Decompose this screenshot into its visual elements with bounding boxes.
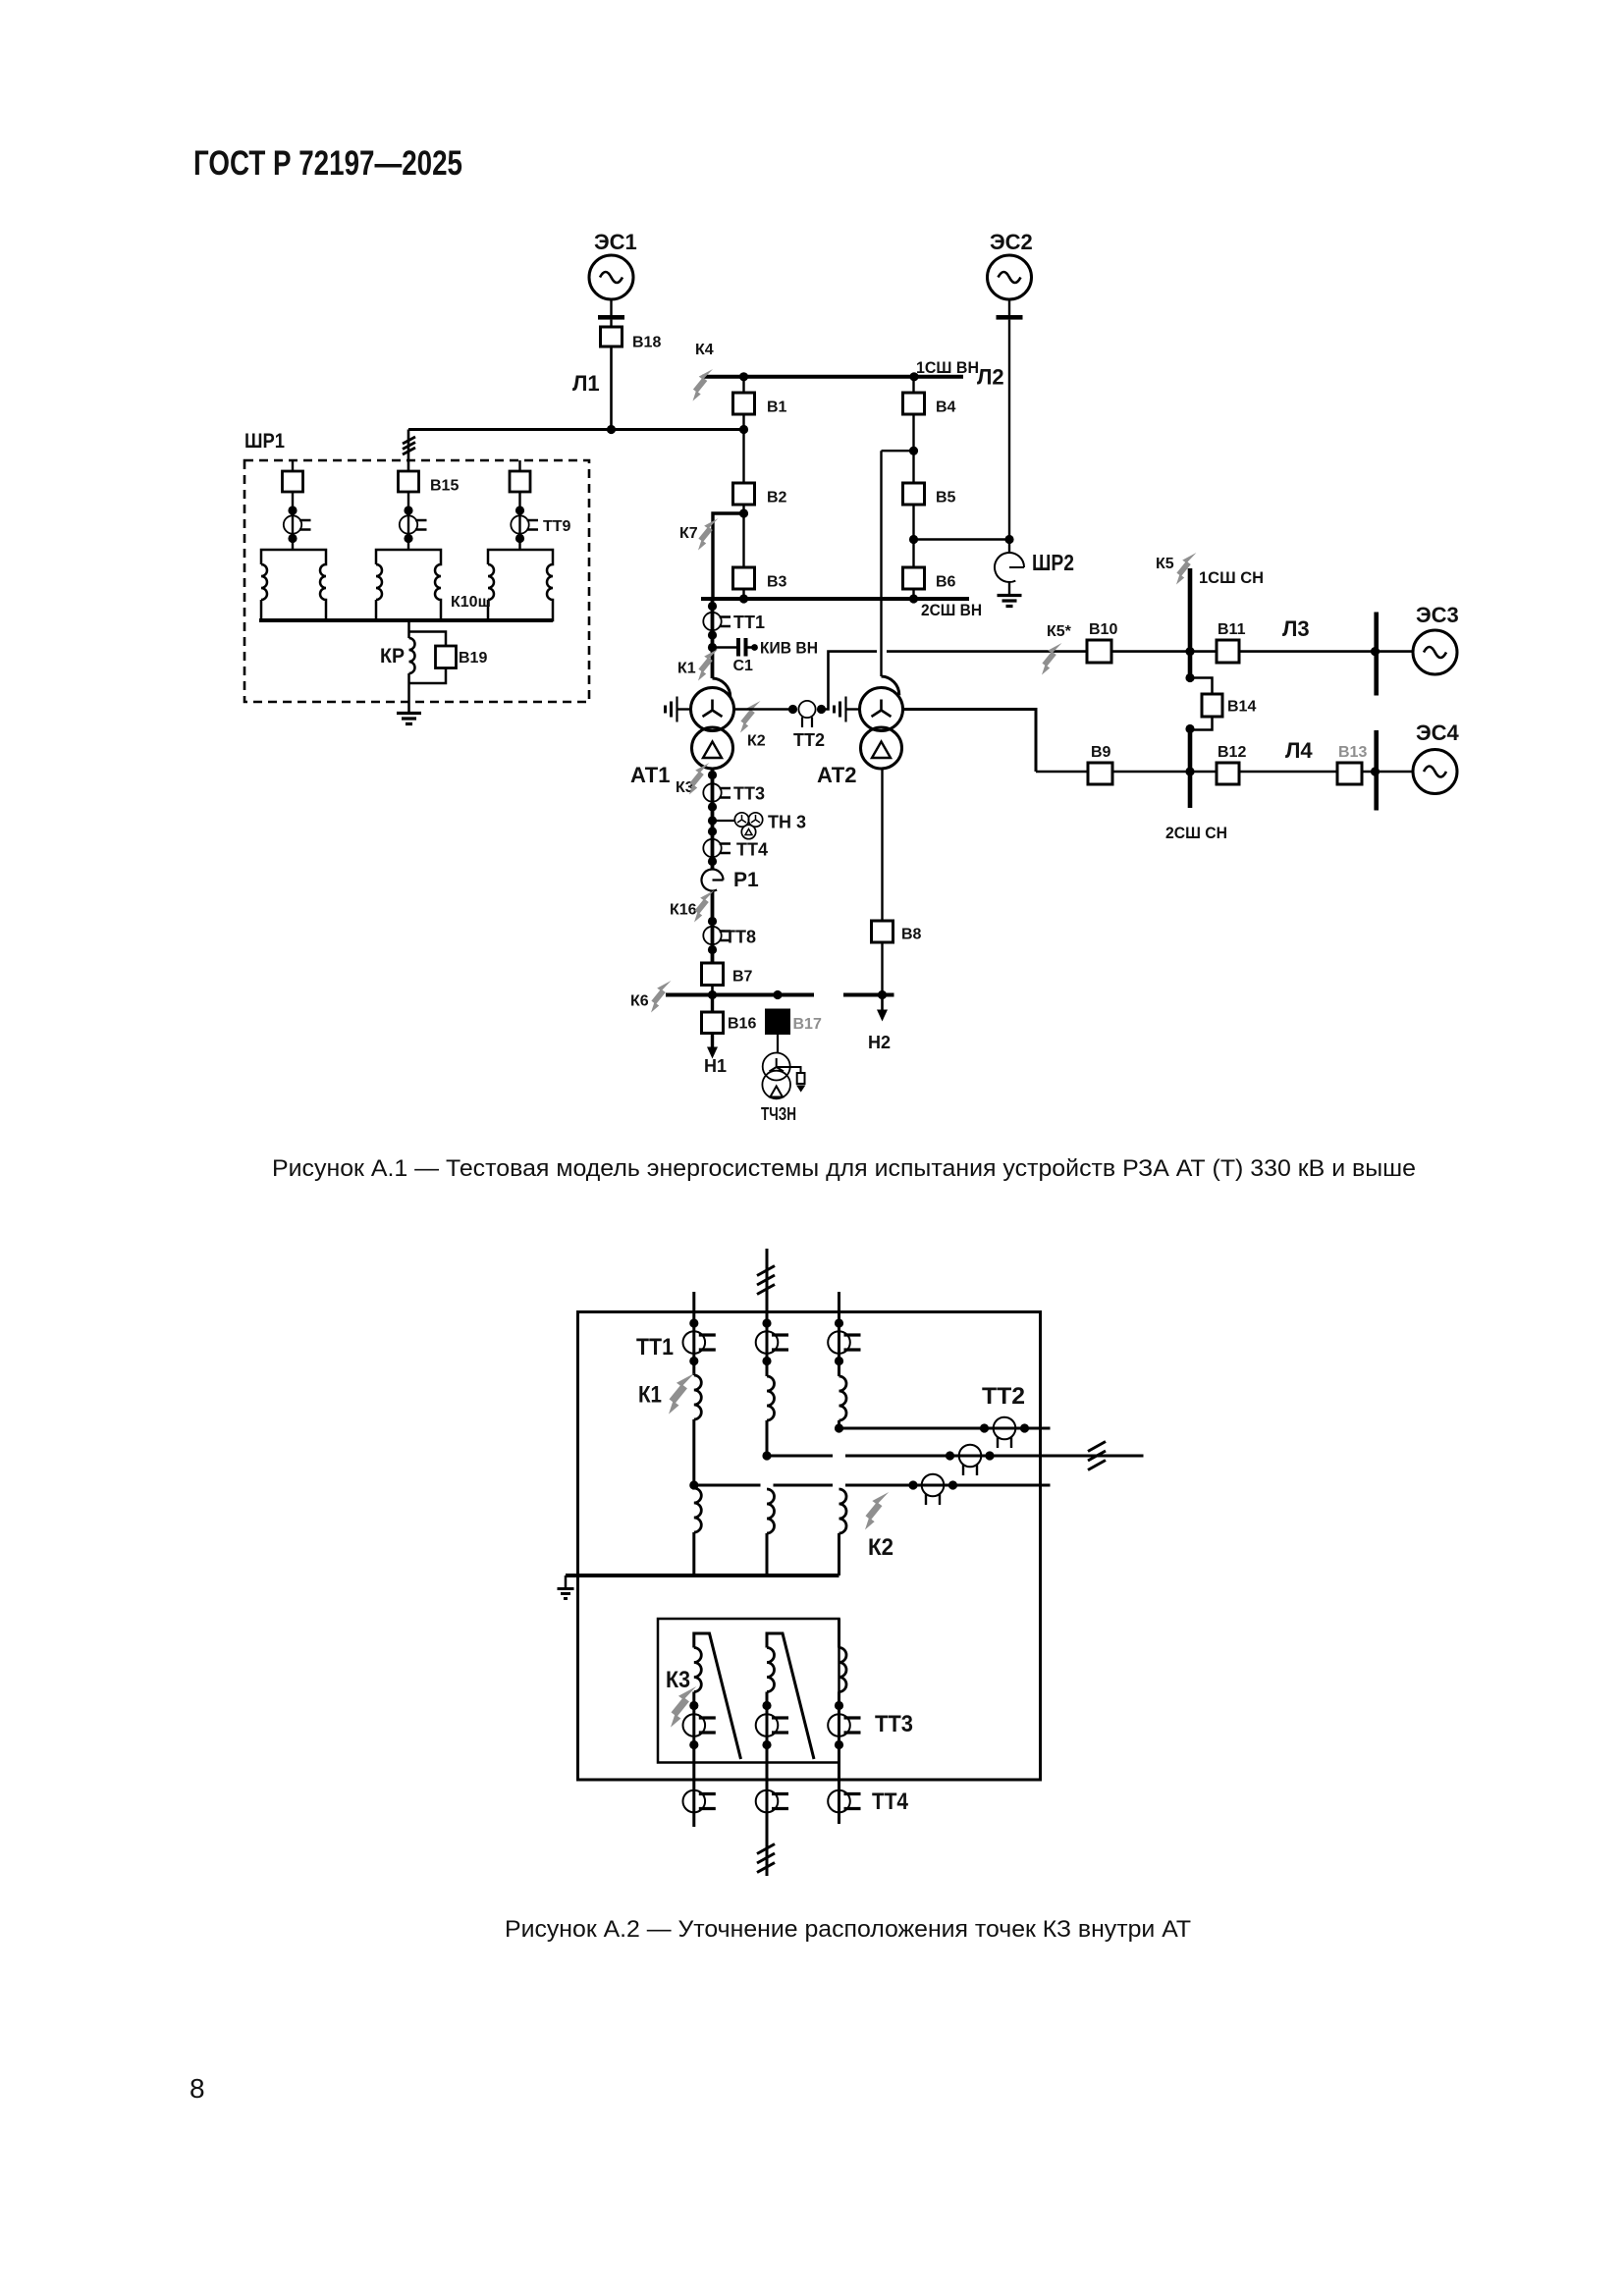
node Л3 / 1СШ СН	[1185, 647, 1194, 656]
node A above ТТ1	[689, 1318, 698, 1327]
wire phase A to tap	[692, 1419, 695, 1485]
svg-text:ШР1: ШР1	[244, 430, 285, 453]
node К6/В16	[708, 990, 717, 999]
wire phase B to star bus	[766, 1533, 769, 1575]
CT ТТ1	[703, 613, 731, 630]
wire В8 to Н2 bus	[881, 942, 883, 995]
neutral ground АТ2	[846, 708, 860, 710]
wire АТ2 to В8	[881, 769, 883, 921]
CT ТТ4 phase B	[756, 1790, 788, 1813]
svg-text:К5: К5	[1156, 556, 1174, 572]
node left of ТТ2 C	[980, 1423, 989, 1432]
star winding mark АТ1	[703, 700, 723, 718]
fault bolt К5	[1176, 553, 1197, 585]
tap wire B	[767, 1455, 1144, 1458]
svg-text:2СШ СН: 2СШ СН	[1165, 824, 1227, 842]
svg-text:2СШ ВН: 2СШ ВН	[921, 601, 982, 619]
svg-text:К2: К2	[868, 1534, 893, 1561]
svg-text:ТТ1: ТТ1	[733, 613, 765, 632]
breaker В14	[1202, 694, 1222, 717]
node bottom 1СШ СН	[1185, 673, 1194, 682]
node Л1/В1 column	[739, 425, 748, 434]
wire АТ1 MV output	[734, 708, 793, 711]
node below В4	[909, 447, 918, 455]
star winding mark АТ2	[872, 700, 892, 718]
wire Л1 down to ШР1	[407, 430, 410, 472]
svg-text:К1: К1	[638, 1382, 662, 1409]
three-phase slashes MV	[1088, 1442, 1106, 1470]
wire ЭС2 to bar	[1008, 299, 1010, 315]
fault bolt К3	[689, 763, 710, 795]
node C above ТТ3	[835, 1701, 843, 1710]
wire Л4	[1036, 771, 1377, 774]
node 1СШ ВН / В4	[909, 372, 918, 381]
neutral bus	[566, 1574, 839, 1577]
svg-text:Н1: Н1	[704, 1056, 727, 1076]
ground arrow ТЧЗН	[796, 1086, 805, 1093]
node tap B	[762, 1451, 771, 1460]
node below ТТ8	[708, 945, 717, 954]
delta connector phase B	[767, 1633, 814, 1759]
wire bar to ЭС3	[1377, 650, 1413, 653]
capacitor С1	[738, 638, 746, 657]
svg-text:ТТ2: ТТ2	[793, 730, 825, 750]
svg-text:В2: В2	[767, 490, 787, 507]
series winding phase A	[694, 1375, 702, 1419]
svg-text:Рисунок А.1 — Тестовая модель: Рисунок А.1 — Тестовая модель энергосист…	[272, 1155, 1416, 1182]
wire АТ1 column lower	[711, 769, 715, 870]
breaker В11	[1217, 640, 1239, 663]
wire to С1	[713, 646, 737, 649]
svg-text:ТТ3: ТТ3	[875, 1711, 913, 1737]
node below right breaker	[515, 506, 524, 514]
svg-text:В3: В3	[767, 574, 787, 591]
svg-text:1СШ СН: 1СШ СН	[1199, 568, 1264, 587]
node left of ТТ2	[788, 705, 797, 714]
svg-text:В11: В11	[1218, 621, 1246, 638]
svg-text:В12: В12	[1218, 744, 1246, 761]
svg-text:К3: К3	[666, 1667, 690, 1693]
CT ТТ4 phase C	[828, 1790, 860, 1813]
svg-text:ТТ3: ТТ3	[733, 784, 765, 804]
breaker В15	[399, 471, 419, 492]
bus 1СШ СН	[1188, 568, 1193, 679]
generator ЭС1	[589, 255, 633, 299]
svg-text:ТТ8: ТТ8	[725, 928, 756, 947]
CT ТТ3	[703, 783, 731, 801]
svg-text:ТТ2: ТТ2	[982, 1383, 1025, 1410]
breaker В17 (closed)	[767, 1010, 789, 1034]
wire phase B through ТТ3	[766, 1692, 769, 1877]
reactor Р1	[702, 870, 724, 891]
wire middle branch	[407, 492, 409, 550]
node A above ТТ3	[689, 1701, 698, 1710]
svg-text:В6: В6	[936, 574, 956, 591]
svg-text:ЭС4: ЭС4	[1416, 721, 1460, 745]
breaker В16	[702, 1012, 724, 1034]
wire bus to В4	[912, 377, 914, 393]
breaker В10	[1087, 640, 1111, 663]
reactor ШР2	[995, 553, 1024, 582]
wire phase C through ТТ3	[838, 1692, 840, 1825]
neutral ground stub	[565, 1575, 568, 1587]
wire АТ2 MV output to Л4	[903, 710, 1037, 773]
CT ТТ3 phase A	[683, 1714, 716, 1736]
breaker В5	[903, 483, 925, 505]
node 1СШ ВН / В1	[739, 372, 748, 381]
svg-text:Л3: Л3	[1282, 616, 1310, 641]
phase C tertiary feed	[838, 1619, 840, 1648]
svg-text:В1: В1	[767, 400, 787, 416]
wire Л3	[887, 650, 1377, 653]
svg-text:В10: В10	[1089, 621, 1117, 638]
tap wire C	[839, 1427, 1051, 1430]
node above ТТ8	[708, 917, 717, 926]
node below ТН3	[708, 827, 717, 835]
node below В15	[404, 506, 412, 514]
tap wire A	[694, 1484, 1051, 1487]
wire АТ2 feeder	[880, 451, 882, 676]
terminal КИВ ВН	[751, 644, 758, 651]
svg-text:ЭС1: ЭС1	[594, 230, 637, 254]
autotransformer АТ1 series arc	[713, 678, 731, 697]
system bar ЭС4	[1374, 730, 1379, 811]
breaker В4	[903, 393, 925, 414]
wire bar to В18	[610, 320, 612, 327]
svg-text:В18: В18	[632, 335, 661, 351]
terminal bar ЭС2	[997, 315, 1023, 320]
node Л1/ЭС1	[607, 425, 616, 434]
bus К6	[666, 993, 814, 997]
wire to ШР2 reactor	[1008, 540, 1010, 554]
wire left branch	[292, 492, 294, 550]
wire В14 link	[1190, 678, 1213, 730]
node C below ТТ3	[835, 1740, 843, 1749]
svg-text:В9: В9	[1091, 744, 1111, 761]
svg-text:С1: С1	[733, 658, 754, 674]
fault bolt К1	[698, 649, 719, 681]
delta connector phase A	[694, 1633, 741, 1759]
node C below ТТ1	[835, 1357, 843, 1365]
wire В19 parallel branch	[409, 632, 447, 684]
svg-text:В14: В14	[1227, 699, 1256, 716]
svg-text:АТ1: АТ1	[630, 763, 670, 787]
node below ТТ1	[708, 630, 717, 639]
node right of ТТ2 C	[1020, 1423, 1029, 1432]
node right of ТТ2 A	[948, 1480, 957, 1489]
svg-text:В4: В4	[936, 400, 956, 416]
common winding phase C	[839, 1489, 847, 1533]
wire phase A to star bus	[692, 1532, 695, 1575]
svg-text:Н2: Н2	[868, 1033, 891, 1052]
breaker В7	[702, 963, 724, 986]
CT ТТ4	[703, 839, 731, 857]
delta winding mark АТ1	[703, 742, 722, 759]
breaker В3	[733, 567, 755, 589]
breaker В9	[1088, 763, 1112, 784]
bus Н2	[843, 993, 894, 997]
wire phase C to tap	[838, 1420, 840, 1428]
phase B lead top	[766, 1249, 769, 1376]
node B above ТТ3	[762, 1701, 771, 1710]
wire КР bottom	[407, 673, 410, 712]
node 2СШ ВН / В3	[739, 594, 748, 603]
breaker В2	[733, 483, 755, 505]
node ТН3 branch	[708, 816, 717, 825]
breaker В1	[733, 393, 755, 414]
svg-text:К6: К6	[630, 993, 649, 1010]
node below 2СШ ВН on АТ1 column	[708, 602, 717, 611]
wire right branch top	[518, 460, 520, 471]
node 2СШ ВН / В6	[909, 594, 918, 603]
wire В2 to node	[742, 505, 744, 513]
node B below ТТ3	[762, 1740, 771, 1749]
svg-text:ЭС2: ЭС2	[990, 230, 1033, 254]
node below В2	[739, 508, 748, 517]
node below ТТ4	[708, 857, 717, 866]
breaker В8	[872, 921, 893, 942]
node Н2	[878, 990, 887, 999]
node left of ТТ2 A	[908, 1480, 917, 1489]
svg-text:К16: К16	[670, 902, 697, 919]
node below АТ1	[708, 771, 717, 779]
wire В18 to Л1	[610, 347, 613, 430]
wire Л1	[408, 428, 744, 431]
load arrow Н2	[881, 995, 884, 1011]
svg-text:Р1: Р1	[733, 869, 759, 891]
wire АТ1 column upper	[711, 599, 715, 678]
tertiary winding phase A	[694, 1648, 702, 1692]
autotransformer АТ2 series arc	[882, 676, 899, 695]
wire В7 to К6 bus	[711, 986, 714, 995]
autotransformer АТ2 HV circle	[860, 688, 903, 731]
svg-text:ГОСТ Р 72197—2025: ГОСТ Р 72197—2025	[193, 144, 462, 183]
svg-text:К1: К1	[677, 661, 696, 677]
wire right branch	[518, 492, 520, 550]
node below ТТ3	[708, 802, 717, 811]
CT middle ШР1	[400, 515, 427, 533]
svg-text:В13: В13	[1338, 744, 1367, 761]
node Л4 / 2СШ СН	[1185, 767, 1194, 775]
fault bolt К1 (А.2)	[669, 1373, 694, 1415]
breaker В19	[436, 646, 457, 668]
CT ТТ3 phase B	[756, 1714, 788, 1736]
node A below ТТ1	[689, 1357, 698, 1365]
three-phase slashes bottom	[757, 1844, 775, 1873]
reactor winding middle	[376, 550, 441, 620]
CT ТТ1 phase C	[828, 1331, 860, 1354]
node right of ТТ2 B	[985, 1451, 994, 1460]
wire node to ШР2	[914, 538, 1010, 540]
svg-text:К2: К2	[747, 733, 766, 750]
wire ЭС1 to bar	[610, 299, 612, 315]
svg-text:В15: В15	[430, 478, 459, 495]
CT left ШР1	[284, 515, 311, 533]
wire В4 to В5	[912, 414, 914, 483]
wire bar to ЭС4	[1377, 771, 1413, 774]
wire В1 to В2	[742, 414, 744, 483]
node B above ТТ1	[762, 1318, 771, 1327]
wire phase C to star bus	[838, 1533, 840, 1575]
svg-text:Рисунок А.2 — Уточнение распол: Рисунок А.2 — Уточнение расположения точ…	[505, 1916, 1191, 1943]
node К6/В17	[773, 990, 782, 999]
wire left branch top	[292, 460, 294, 471]
common winding phase B	[767, 1489, 775, 1533]
CT ТТ2 phase A	[922, 1474, 945, 1505]
wire to ТН3	[713, 820, 735, 822]
bus 1СШ ВН	[702, 375, 963, 379]
CT ТТ2 phase C	[994, 1417, 1016, 1448]
wire В6 to bus	[912, 589, 914, 599]
wire В5 to В6	[912, 505, 914, 567]
autotransformer АТ1 LV circle	[692, 727, 733, 769]
phase C lead top	[838, 1292, 840, 1376]
load arrow Н1	[711, 1034, 714, 1048]
wire bus to В1	[742, 377, 744, 393]
CT ТТ9	[511, 515, 538, 533]
wire node to В3	[742, 513, 744, 567]
svg-text:КР: КР	[380, 645, 405, 667]
tertiary winding phase B	[767, 1648, 775, 1692]
fault bolt К16	[694, 890, 715, 923]
wire Р1 to ТТ8	[711, 891, 715, 964]
wire К7 branch	[713, 513, 744, 599]
svg-text:1СШ ВН: 1СШ ВН	[916, 358, 979, 377]
fault bolt К5*	[1042, 643, 1062, 675]
wire neutral resistor ТЧЗН	[777, 1067, 801, 1073]
autotransformer АТ2 LV circle	[861, 727, 902, 769]
CT ТТ1 phase A	[683, 1331, 716, 1354]
svg-text:ТТ4: ТТ4	[872, 1789, 909, 1815]
CT ТТ2	[798, 701, 815, 727]
ground ШР2	[998, 596, 1022, 607]
series winding phase C	[839, 1376, 847, 1420]
fault bolt К4	[693, 369, 714, 401]
wire ТТ2 riser to Л3	[822, 652, 878, 710]
wire ЭС2 down	[1008, 320, 1010, 540]
svg-text:В8: В8	[901, 927, 922, 943]
svg-text:К5*: К5*	[1047, 623, 1072, 640]
node below middle CT	[404, 534, 412, 543]
svg-text:В7: В7	[732, 969, 753, 986]
resistor ТЧЗН neutral	[797, 1073, 805, 1084]
fault bolt К3 (А.2)	[671, 1686, 696, 1728]
tertiary box	[658, 1619, 839, 1763]
node A below ТТ3	[689, 1740, 698, 1749]
node B below ТТ1	[762, 1357, 771, 1365]
wire В3 to bus	[742, 589, 744, 599]
svg-text:К10ш: К10ш	[451, 594, 491, 611]
bottom bus ШР1	[259, 618, 553, 622]
neutral ground АТ1	[677, 708, 691, 710]
generator ЭС4	[1413, 750, 1457, 794]
svg-text:ЭС3: ЭС3	[1416, 603, 1459, 627]
common winding phase A	[694, 1488, 702, 1532]
АТ tank outline (figure А.2)	[578, 1312, 1041, 1781]
node left of ТТ2 B	[946, 1451, 954, 1460]
wire В17 to ТЧЗН	[777, 1034, 779, 1053]
svg-text:КИВ ВН: КИВ ВН	[760, 639, 818, 658]
reactor winding left	[261, 550, 326, 620]
terminal bar ЭС1	[598, 315, 624, 320]
svg-text:К7: К7	[679, 525, 698, 542]
node below ТТ9	[515, 534, 524, 543]
svg-text:8: 8	[189, 2073, 205, 2104]
fault bolt К2	[865, 1492, 889, 1529]
breaker right ШР1	[510, 471, 530, 492]
CT ТТ8	[703, 927, 731, 944]
svg-text:Л4: Л4	[1285, 738, 1313, 763]
node ЭС3 bar	[1371, 647, 1380, 656]
reactor winding right	[488, 550, 553, 620]
svg-text:АТ2: АТ2	[817, 763, 856, 787]
three-phase slashes top	[757, 1266, 775, 1295]
phase A lead top	[692, 1292, 695, 1375]
coil КР	[409, 638, 415, 673]
wire ШР2 to ground	[1008, 582, 1010, 595]
ground (А.2 neutral)	[558, 1589, 574, 1599]
svg-text:К4: К4	[695, 342, 714, 358]
node tap C	[835, 1423, 843, 1432]
bus 2СШ ВН	[701, 597, 969, 601]
node ШР2	[1004, 535, 1013, 544]
fault bolt К2	[740, 701, 761, 733]
breaker В6	[903, 567, 925, 589]
breaker В12	[1217, 763, 1239, 784]
generator ЭС3	[1413, 630, 1457, 674]
node below left breaker	[288, 506, 297, 514]
svg-text:ТТ1: ТТ1	[636, 1334, 674, 1361]
node below В5	[909, 535, 918, 544]
node КИВ branch	[708, 643, 717, 652]
CT ТТ1 phase B	[756, 1331, 788, 1354]
svg-text:Л2: Л2	[977, 365, 1004, 390]
wire bus to В16	[711, 995, 714, 1013]
node top 2СШ СН	[1185, 724, 1194, 733]
svg-text:В16: В16	[728, 1016, 756, 1033]
delta winding mark АТ2	[872, 742, 891, 759]
fault bolt К7	[698, 518, 719, 551]
tertiary winding phase C	[839, 1648, 847, 1692]
system bar ЭС3	[1374, 613, 1379, 696]
CT ТТ2 phase B	[959, 1445, 982, 1475]
svg-text:ТТ4: ТТ4	[736, 840, 768, 860]
CT ТТ3 phase C	[828, 1714, 860, 1736]
svg-text:В5: В5	[936, 490, 956, 507]
node tap A	[689, 1480, 698, 1489]
wire С1 to КИВ terminal	[748, 646, 753, 649]
svg-text:ШР2: ШР2	[1032, 550, 1074, 575]
svg-text:ТТ9: ТТ9	[543, 518, 571, 535]
svg-text:ТН 3: ТН 3	[768, 813, 806, 832]
svg-text:В17: В17	[793, 1016, 822, 1033]
ground КР	[397, 714, 421, 724]
wire node to АТ2 feeder	[882, 450, 914, 452]
autotransformer АТ1 HV circle	[691, 688, 734, 731]
fault bolt К6	[651, 981, 672, 1013]
voltage transformer ТН3	[734, 813, 762, 839]
node right of ТТ2	[817, 705, 826, 714]
svg-text:ТЧЗН: ТЧЗН	[761, 1104, 796, 1124]
wire phase B to tap	[766, 1420, 769, 1456]
CT ТТ4 phase A	[683, 1790, 716, 1813]
node ЭС4 bar	[1371, 767, 1380, 775]
generator ЭС2	[988, 255, 1032, 299]
dashed box ШР1	[244, 460, 589, 702]
wire КР top	[407, 620, 410, 638]
three-phase slashes on ШР1 feeder	[403, 437, 415, 454]
node below left CT	[288, 534, 297, 543]
